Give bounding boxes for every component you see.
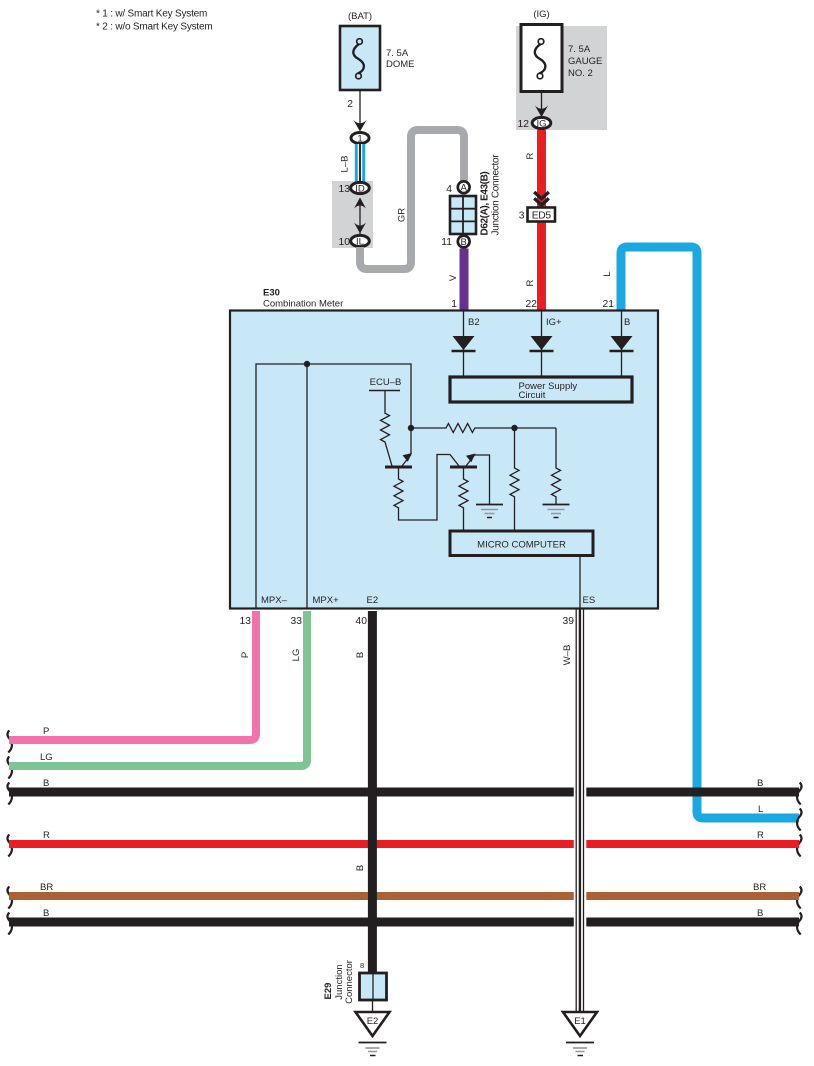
labels bottom wires xyxy=(240,652,251,658)
svg-text:4: 4 xyxy=(446,184,452,195)
svg-text:39: 39 xyxy=(563,616,575,627)
label L upper xyxy=(602,271,613,276)
svg-text:21: 21 xyxy=(603,299,615,310)
svg-text:BR: BR xyxy=(40,882,53,893)
ECU-B rail bar xyxy=(369,390,400,392)
wire E29 to ground E2 xyxy=(372,1000,374,1012)
svg-text:(BAT): (BAT) xyxy=(348,11,372,22)
connector oval 1 xyxy=(351,133,369,144)
svg-text:1: 1 xyxy=(357,134,362,145)
resistor R1 xyxy=(381,391,393,467)
svg-text:B: B xyxy=(757,908,763,919)
svg-text:R: R xyxy=(43,830,50,841)
ground G1 xyxy=(476,505,503,518)
wire V purple xyxy=(460,249,469,311)
svg-text:GR: GR xyxy=(397,208,408,222)
svg-text:B: B xyxy=(43,908,49,919)
svg-text:ID: ID xyxy=(355,183,365,194)
bus line BR xyxy=(9,892,799,900)
resistor R5 xyxy=(510,428,519,531)
svg-text:E29: E29 xyxy=(323,983,334,1000)
wire P pink xyxy=(9,611,256,740)
svg-text:ES: ES xyxy=(583,595,596,606)
resistor R2 under Q1 emitter xyxy=(394,455,459,521)
svg-text:8: 8 xyxy=(360,961,364,970)
svg-text:L: L xyxy=(602,271,613,276)
svg-text:2: 2 xyxy=(347,99,353,110)
ground E1 xyxy=(563,1012,597,1036)
wire R red upper xyxy=(537,130,546,310)
bus line B upper xyxy=(9,788,799,797)
wire LG green xyxy=(9,611,307,766)
chevron splice arrows on red wire xyxy=(534,192,549,205)
wire ES inside meter xyxy=(579,556,581,610)
svg-text:IG: IG xyxy=(536,118,546,129)
fuse F2 symbol xyxy=(535,39,546,79)
svg-text:7. 5A: 7. 5A xyxy=(568,44,591,55)
wire W-B white mask xyxy=(574,783,587,931)
transistor Q1 xyxy=(385,453,412,467)
svg-text:MPX+: MPX+ xyxy=(313,595,340,606)
svg-text:13: 13 xyxy=(339,184,351,195)
label R xyxy=(525,152,536,159)
double arrow between ID and IL xyxy=(359,200,361,236)
svg-text:Connector: Connector xyxy=(344,960,355,1004)
svg-text:LG: LG xyxy=(40,752,53,763)
svg-text:* 1 : w/ Smart Key System: * 1 : w/ Smart Key System xyxy=(96,9,207,20)
diode D1 xyxy=(452,311,476,377)
label D62(A), E43(B) Junction Connector xyxy=(479,172,490,236)
svg-text:B: B xyxy=(355,865,366,871)
svg-text:LG: LG xyxy=(291,649,302,662)
svg-text:Circuit: Circuit xyxy=(519,390,546,401)
svg-text:E2: E2 xyxy=(367,1016,379,1027)
continuation hooks left edge xyxy=(7,731,12,935)
svg-text:33: 33 xyxy=(291,616,303,627)
svg-text:B: B xyxy=(461,237,467,248)
label R lower xyxy=(525,279,536,286)
power supply circuit box xyxy=(450,377,632,402)
svg-text:V: V xyxy=(448,274,459,281)
svg-text:E1: E1 xyxy=(574,1016,586,1027)
ground G2 xyxy=(543,505,570,518)
svg-text:3: 3 xyxy=(519,211,525,222)
label GR xyxy=(397,208,408,222)
svg-text:BR: BR xyxy=(753,882,766,893)
svg-text:L: L xyxy=(758,804,763,815)
svg-text:40: 40 xyxy=(356,616,368,627)
svg-text:R: R xyxy=(757,830,764,841)
svg-text:R: R xyxy=(525,152,536,159)
svg-text:10: 10 xyxy=(339,237,351,248)
svg-text:E2: E2 xyxy=(367,595,379,606)
wire fuse F1 to connector 1 xyxy=(359,90,361,125)
svg-text:* 2 : w/o Smart Key System: * 2 : w/o Smart Key System xyxy=(96,22,213,33)
arrowhead down onto connector 1 xyxy=(353,120,366,132)
svg-text:11: 11 xyxy=(441,237,452,248)
svg-text:A: A xyxy=(461,183,468,194)
label V xyxy=(448,274,459,281)
svg-text:B: B xyxy=(355,652,366,658)
label L-B xyxy=(340,156,351,173)
node rail2 junction at Q1 collector xyxy=(408,425,414,431)
gray panel behind IG fuse xyxy=(516,26,607,130)
ground E2 xyxy=(356,1012,390,1036)
node MPX rail junction xyxy=(304,361,310,367)
svg-text:22: 22 xyxy=(526,299,538,310)
wire GR gray xyxy=(360,130,464,269)
svg-text:7. 5A: 7. 5A xyxy=(386,48,409,59)
svg-text:W–B: W–B xyxy=(562,645,573,666)
micro computer box xyxy=(450,531,593,556)
svg-text:Junction Connector: Junction Connector xyxy=(490,154,501,236)
svg-text:IL: IL xyxy=(356,236,364,247)
gray panel behind ID/IL connectors xyxy=(332,181,373,248)
svg-text:B: B xyxy=(624,317,630,328)
svg-text:Combination Meter: Combination Meter xyxy=(263,299,343,310)
svg-text:12: 12 xyxy=(518,119,530,130)
svg-text:B2: B2 xyxy=(468,317,480,328)
svg-text:P: P xyxy=(240,652,251,658)
node rail2 junction right xyxy=(511,425,517,431)
resistor R6 xyxy=(552,428,561,504)
fuse F1 (BAT) box xyxy=(340,26,380,90)
diode D3 xyxy=(610,311,634,377)
svg-text:B: B xyxy=(757,778,763,789)
fuse F1 symbol xyxy=(353,39,364,79)
bus line B lower xyxy=(9,918,799,927)
arrowhead down onto IG xyxy=(535,106,548,118)
transistor Q2 xyxy=(450,454,490,505)
svg-text:(IG): (IG) xyxy=(533,9,549,20)
svg-text:ECU–B: ECU–B xyxy=(370,377,402,388)
fuse F2 (IG) box xyxy=(521,25,562,92)
svg-text:E30: E30 xyxy=(263,288,280,299)
svg-text:13: 13 xyxy=(240,616,252,627)
wire L cyan loop xyxy=(621,247,799,818)
svg-text:P: P xyxy=(43,726,49,737)
svg-text:MPX–: MPX– xyxy=(261,595,288,606)
svg-text:L–B: L–B xyxy=(340,156,351,173)
wire W-B (white with black stripe) xyxy=(575,609,577,1012)
internal wires MPX rail xyxy=(256,364,411,609)
svg-text:GAUGE: GAUGE xyxy=(568,56,602,67)
svg-text:DOME: DOME xyxy=(386,59,415,70)
diode D2 xyxy=(530,311,554,377)
wire fuse F2 to IG connector xyxy=(541,92,543,112)
svg-text:NO. 2: NO. 2 xyxy=(568,68,593,79)
svg-text:D62(A), E43(B): D62(A), E43(B) xyxy=(479,172,490,236)
wire L-B (blue with black stripe) xyxy=(355,144,365,183)
resistor R3 horizontal xyxy=(411,424,556,433)
junction connector D62(A), E43(B) grid xyxy=(450,196,476,234)
svg-text:R: R xyxy=(525,279,536,286)
resistor R4 under Q2 emitter xyxy=(459,469,468,532)
bus line R xyxy=(9,840,799,848)
svg-text:ED5: ED5 xyxy=(532,210,552,221)
continuation hooks right edge xyxy=(797,783,802,935)
svg-text:1: 1 xyxy=(451,299,457,310)
svg-text:MICRO COMPUTER: MICRO COMPUTER xyxy=(477,540,566,551)
svg-text:B: B xyxy=(43,778,49,789)
svg-text:IG+: IG+ xyxy=(546,317,562,328)
wire B black vertical xyxy=(368,611,377,974)
